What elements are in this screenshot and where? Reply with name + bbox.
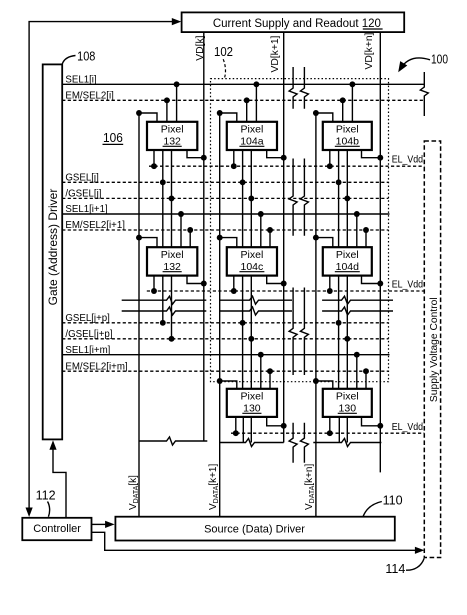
source (data) driver block 110 (115, 517, 394, 541)
wire controller-source (92, 523, 106, 525)
wire VD[k] (203, 32, 205, 441)
pixel 132 (col 1, row 2) (147, 247, 197, 275)
wire controller-supply (92, 532, 416, 550)
svg-text:EL_Vdd: EL_Vdd (392, 154, 424, 166)
wiring pixel 130 (col 3, row 3) (316, 381, 333, 389)
column break mark 2 segment low (300, 288, 308, 376)
column break mark 2 segment top (300, 67, 308, 109)
svg-text:110: 110 (383, 492, 403, 507)
wiring pixel 104d (col 3, row 2) (316, 238, 333, 248)
wiring pixel 130 (col 2, row 3) (220, 381, 237, 389)
svg-text:Pixel: Pixel (336, 390, 359, 402)
wire SEL1[i+m] (62, 354, 389, 356)
bottom break col2 (220, 439, 284, 447)
row omission break col1 y311.0 (122, 307, 207, 315)
svg-text:Supply Voltage Control: Supply Voltage Control (429, 297, 440, 402)
svg-text:GSEL[j+p]: GSEL[j+p] (65, 313, 109, 324)
wire EL_Vdd row2 (147, 290, 425, 292)
svg-text:Gate (Address) Driver: Gate (Address) Driver (46, 189, 60, 306)
wire EL_Vdd row1 (149, 165, 424, 167)
wiring pixel 132 (col 1, row 2) (139, 238, 157, 248)
pixel 130 (col 2, row 3) (227, 389, 277, 417)
svg-text:100: 100 (431, 51, 448, 66)
row break mark right (420, 72, 428, 116)
controller block 112 (22, 518, 91, 540)
supply voltage control block 114 (424, 141, 440, 558)
wiring pixel 104a (col 2, row 1) (220, 113, 237, 122)
svg-text:VD[k]: VD[k] (195, 35, 206, 60)
svg-text:SEL1[i+1]: SEL1[i+1] (65, 204, 107, 215)
row omission break col2 y300.2 (220, 296, 293, 304)
svg-text:Source (Data) Driver: Source (Data) Driver (204, 523, 305, 535)
svg-text:SEL1[i]: SEL1[i] (65, 74, 96, 85)
row omission break col3 y300.2 (322, 296, 393, 304)
svg-text:102: 102 (214, 44, 233, 59)
label 114 (406, 558, 424, 570)
label 100 (401, 58, 431, 69)
pixel 104c (col 2, row 2) (227, 247, 277, 275)
column break mark 1 segment top (289, 67, 297, 109)
column break mark 2 segment mid (300, 159, 308, 236)
pixel 132 (col 1, row 1) (147, 122, 197, 150)
svg-text:EL_Vdd: EL_Vdd (392, 421, 424, 433)
svg-text:Pixel: Pixel (241, 249, 264, 261)
column break mark 1 segment bottom (289, 423, 297, 463)
pixel 130 (col 3, row 3) (323, 389, 372, 417)
label 112 (48, 502, 50, 517)
svg-text:Pixel: Pixel (161, 123, 184, 135)
svg-text:108: 108 (77, 48, 95, 63)
svg-text:Pixel: Pixel (161, 249, 184, 261)
wiring pixel 132 (col 1, row 1) (139, 113, 157, 122)
wire /GSEL[j+p] (62, 338, 388, 340)
svg-text:106: 106 (103, 130, 123, 145)
wire SEL1[i+1] (62, 213, 389, 215)
wire VDATA[k] (138, 113, 140, 517)
wire EM/SEL2[i+m] (62, 370, 388, 372)
wire VDATA[k+1] (219, 113, 221, 517)
column break mark 1 segment low (289, 288, 297, 376)
svg-text:/GSEL[j]: /GSEL[j] (65, 189, 101, 200)
svg-text:Pixel: Pixel (336, 249, 359, 261)
svg-text:VD[k+1]: VD[k+1] (270, 35, 281, 72)
wire controller-gate (53, 449, 66, 518)
column break mark 2 segment bottom (300, 423, 308, 463)
pixel 104b (col 3, row 1) (323, 122, 372, 150)
svg-text:112: 112 (36, 488, 56, 503)
svg-text:EM/SEL2[i+1]: EM/SEL2[i+1] (65, 220, 125, 231)
svg-text:Controller: Controller (33, 523, 81, 535)
column break mark 1 segment mid (289, 159, 297, 236)
svg-text:EM/SEL2[i]: EM/SEL2[i] (65, 90, 113, 101)
row omission break col2 y311.0 (220, 307, 293, 315)
wire EM/SEL2[i] (62, 99, 424, 101)
wiring pixel 104b (col 3, row 1) (316, 113, 333, 122)
pixel 104d (col 3, row 2) (323, 247, 372, 275)
svg-text:VD[k+n]: VD[k+n] (364, 32, 375, 69)
svg-text:Current Supply and Readout 120: Current Supply and Readout 120 (213, 18, 381, 30)
wire VD[k+n] (379, 32, 381, 472)
wire SEL1[i] (62, 83, 424, 85)
wire GSEL[j] (62, 181, 388, 183)
wire EM/SEL2[i+1] (62, 229, 388, 231)
wire VDATA[k+n] (315, 113, 317, 517)
svg-text:114: 114 (385, 561, 405, 576)
bottom break col1 (139, 437, 207, 445)
svg-text:Pixel: Pixel (241, 123, 264, 135)
pixel 104a (col 2, row 1) (227, 122, 277, 150)
svg-text:SEL1[i+m]: SEL1[i+m] (65, 345, 110, 356)
current supply and readout block 120 (182, 12, 405, 32)
row omission break col1 y300.2 (122, 296, 207, 304)
wire GSEL[j+p] (62, 322, 388, 324)
wiring pixel 104c (col 2, row 2) (220, 238, 237, 248)
svg-text:/GSEL[j+p]: /GSEL[j+p] (65, 329, 112, 340)
wire controller-readout feedback (29, 22, 174, 509)
label 108 (62, 56, 75, 64)
label 102 (223, 59, 225, 77)
gate (address) driver block 108 (43, 64, 63, 439)
wire /GSEL[j] (62, 197, 388, 199)
svg-text:Pixel: Pixel (241, 390, 264, 402)
label 110 (363, 502, 382, 517)
wire VD[k+1] (283, 32, 285, 442)
wire EL_Vdd row3 (231, 432, 424, 434)
panel outline 102 (211, 79, 389, 382)
svg-text:EM/SEL2[i+m]: EM/SEL2[i+m] (65, 361, 127, 372)
bottom break col3 (313, 439, 381, 447)
svg-text:Pixel: Pixel (336, 123, 359, 135)
row omission break col3 y311.0 (322, 307, 393, 315)
svg-text:GSEL[j]: GSEL[j] (65, 172, 98, 183)
svg-text:EL_Vdd: EL_Vdd (392, 279, 424, 291)
